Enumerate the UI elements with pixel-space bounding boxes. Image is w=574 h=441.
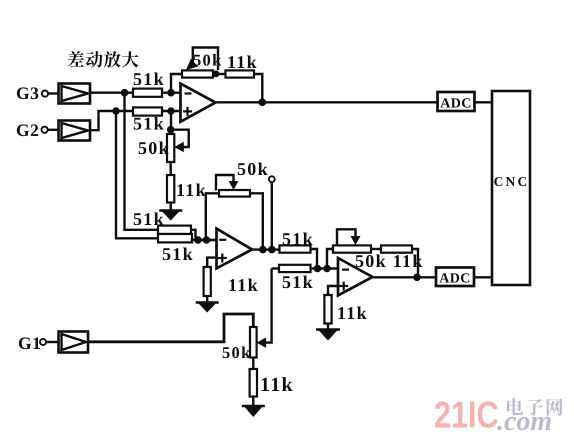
buffer amplifier G2 <box>59 121 91 141</box>
terminal test point (P3) <box>269 176 275 182</box>
svg-text:11k: 11k <box>176 180 207 200</box>
wire U3 inverting row <box>272 267 338 269</box>
wire G3 input to buffer <box>48 92 59 94</box>
wire R10 down to U3 output <box>412 249 418 277</box>
resistor R3 11k feedback <box>226 70 255 77</box>
wire U3 output to ADC2 <box>373 276 437 278</box>
wire buffer G1 to P5 top <box>88 314 253 342</box>
wire ADC1 to CNC <box>475 101 493 103</box>
op-amp U3 <box>338 258 373 296</box>
resistor R6 51k lower summing <box>158 234 192 242</box>
node P4 left corner <box>331 246 337 252</box>
node U3- junction 2 <box>323 265 331 273</box>
wire R8 right down to U3 inverting row <box>311 249 318 269</box>
node summing junction b <box>203 236 211 244</box>
node U2 output junction 1 <box>259 246 267 254</box>
P3 wiper loop and arrow <box>216 175 234 191</box>
resistor R7 11k vertical <box>204 267 211 296</box>
node U1 noninverting input <box>167 107 175 115</box>
wire U1+ down to P2 <box>170 111 172 134</box>
node summing junction a <box>194 236 202 244</box>
svg-text:G1: G1 <box>18 333 41 353</box>
buffer amplifier G3 <box>59 84 91 104</box>
potentiometer P5 50k vertical body <box>250 327 257 358</box>
svg-text:50k: 50k <box>222 343 252 362</box>
wire R3 to U1 output node <box>254 74 262 102</box>
svg-text:51k: 51k <box>133 69 165 89</box>
resistor R10 11k feedback <box>381 245 412 252</box>
node U3 output junction <box>413 274 421 282</box>
svg-text:11k: 11k <box>228 275 259 295</box>
svg-text:21IC: 21IC <box>434 394 499 436</box>
node U2 output junction 2 <box>268 246 276 254</box>
wire R6 right to summing node <box>192 238 217 240</box>
svg-text:51k: 51k <box>162 244 194 264</box>
wire R12 to ground <box>252 397 254 406</box>
wire P1 to R3 <box>213 73 226 75</box>
wire bus B from G2 row down to summing resistor <box>116 111 158 238</box>
svg-text:11k: 11k <box>260 374 294 396</box>
wire buffer G2 output up to U1 noninverting row <box>90 111 181 130</box>
P2 wiper loop and arrow <box>171 130 189 147</box>
svg-text:51k: 51k <box>133 209 165 229</box>
node P1 right end <box>213 70 220 77</box>
potentiometer P1 50k body <box>182 70 213 77</box>
potentiometer P4 50k body <box>333 245 371 252</box>
CNC block <box>492 91 530 285</box>
wire ADC2 to CNC <box>474 276 492 278</box>
node G2 bus junction <box>112 107 120 115</box>
wire R5 right to summing node <box>191 230 217 240</box>
terminal G3 <box>42 91 48 97</box>
node U3- junction 1 <box>314 265 322 273</box>
wire U3+ to R11 <box>328 286 338 295</box>
P4 wiper loop and arrow <box>337 229 356 245</box>
svg-text:G3: G3 <box>16 83 39 103</box>
ground (R12) <box>243 405 264 417</box>
node P2 top / wiper tie <box>167 126 175 134</box>
resistor R9 51k (G1 path to U3-) <box>279 265 311 272</box>
P5 wiper arrow and wire to R9 branch <box>262 269 272 343</box>
svg-text:11k: 11k <box>337 303 368 323</box>
terminal G2 <box>42 127 48 133</box>
svg-text:ADC: ADC <box>440 97 472 112</box>
svg-text:G2: G2 <box>16 120 39 140</box>
ground (R7) <box>197 302 218 313</box>
op-amp U1 <box>181 84 216 122</box>
wire R7 to ground <box>206 296 208 302</box>
svg-text:50k: 50k <box>237 159 269 179</box>
svg-text:50k 11k: 50k 11k <box>355 251 424 271</box>
svg-text:50k: 50k <box>138 138 170 158</box>
potentiometer P2 50k vertical body <box>167 134 174 162</box>
ADC block 1 <box>438 92 475 111</box>
op-amp U2 <box>217 229 253 269</box>
buffer amplifier G1 <box>59 332 89 353</box>
wire U2 output row <box>252 248 280 250</box>
resistor R4 11k vertical <box>167 175 174 203</box>
svg-text:51k: 51k <box>133 113 165 133</box>
label title 差动放大 <box>68 51 84 67</box>
svg-text:51k: 51k <box>282 229 314 249</box>
wire R11 to ground <box>327 324 329 329</box>
svg-text:11k: 11k <box>227 52 258 72</box>
wire G1 input to buffer <box>46 341 59 343</box>
wire P5 to R12 <box>252 358 254 370</box>
wire P4 to R10 <box>371 248 381 250</box>
resistor R 51k (G2 to U1+) <box>133 107 162 115</box>
svg-text:51k: 51k <box>282 272 314 292</box>
node G3 bus junction <box>121 89 129 97</box>
svg-text:CNC: CNC <box>494 174 530 189</box>
ADC block 2 <box>436 268 474 287</box>
ground (R4) <box>160 210 181 221</box>
wire R4 to ground <box>169 203 171 210</box>
watermark 电子网 <box>507 398 523 415</box>
resistor R12 11k vertical <box>250 369 257 397</box>
wire U1 feedback from inverting input up <box>171 74 182 93</box>
resistor R8 51k (U2 out to U3-) <box>280 245 311 252</box>
svg-text:ADC: ADC <box>439 272 471 287</box>
potentiometer P3 50k body <box>219 190 250 197</box>
wire U2+ to R7 <box>207 258 216 267</box>
wire bus A from G3 row down to summing resistor <box>125 93 159 230</box>
wire test point to U2 output <box>271 182 273 250</box>
wire U1 output to ADC1 <box>216 101 438 103</box>
terminal G1 <box>40 339 46 345</box>
resistor R11 11k vertical <box>324 295 331 324</box>
wire buffer G3 output to op-amp U1 inverting input <box>90 91 181 93</box>
wire P2 to R4 <box>169 162 171 175</box>
wire G2 input to buffer <box>48 129 59 131</box>
resistor R5 51k upper summing <box>158 226 191 234</box>
svg-text:.com: .com <box>497 406 552 437</box>
svg-text:50k: 50k <box>193 51 223 70</box>
wire P3 right leg down to U2 output <box>250 193 263 249</box>
wire P3 left leg down to summing node <box>206 193 219 240</box>
ground (R11) <box>317 329 339 341</box>
node U1 inverting input <box>167 89 175 97</box>
resistor R 51k (G3 to U1-) <box>133 89 162 97</box>
P1 wiper loop and arrow <box>193 48 218 71</box>
node U1 output junction <box>259 99 267 107</box>
wire U3 feedback up to P4 <box>327 249 333 269</box>
